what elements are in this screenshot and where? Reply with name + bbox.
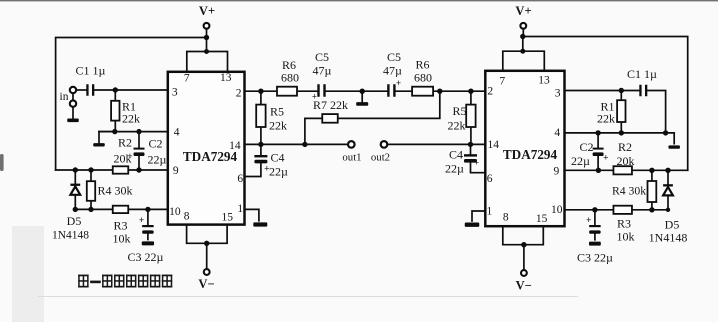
svg-text:4: 4 xyxy=(554,127,560,139)
svg-text:14: 14 xyxy=(229,140,241,152)
svg-text:D5: D5 xyxy=(67,214,82,228)
svg-text:1: 1 xyxy=(237,203,243,215)
power terminal V- (left) xyxy=(198,269,214,291)
wire: pin 7 / pin 13 supply bracket (right) xyxy=(503,51,545,71)
wire: pin 10 net (right) xyxy=(565,209,669,211)
capacitor C1 (left) 1uF xyxy=(76,64,106,96)
junction dot (C4/R5 node, right) xyxy=(468,142,473,147)
ground (R1/R2 node) xyxy=(93,132,115,147)
svg-text:out1: out1 xyxy=(342,152,361,164)
svg-text:1N4148: 1N4148 xyxy=(52,230,89,242)
wire: pin 4 net (left) xyxy=(99,131,168,133)
resistor R3 (left) 10k xyxy=(113,206,131,246)
svg-text:C4: C4 xyxy=(270,151,284,165)
resistor R3 (right) 10k xyxy=(613,206,634,244)
svg-text:22µ: 22µ xyxy=(445,162,464,176)
svg-text:6: 6 xyxy=(487,173,493,185)
resistor R4 (left) 30k xyxy=(87,170,133,209)
svg-text:R5: R5 xyxy=(452,104,466,118)
wire: pin 7 / pin 13 supply bracket (left) xyxy=(187,52,228,72)
ground (pin 1, left) xyxy=(253,222,267,226)
svg-text:13: 13 xyxy=(538,75,550,87)
svg-text:+: + xyxy=(586,216,591,226)
capacitor C1 (right) 1uF xyxy=(627,67,657,96)
wire: pin 9 net (left) xyxy=(56,169,168,171)
svg-text:22k: 22k xyxy=(269,119,287,133)
svg-text:4: 4 xyxy=(174,126,180,138)
junction dot (V- node right) xyxy=(521,242,526,247)
svg-text:V−: V− xyxy=(516,279,532,293)
junction dot (C2 top, right) xyxy=(595,130,600,135)
capacitor C4 (left) 22uF xyxy=(245,144,289,178)
output terminal out2 xyxy=(371,141,390,163)
junction dot (C1/ground corner, right) xyxy=(663,130,668,135)
svg-text:8: 8 xyxy=(184,211,190,223)
op-amp IC U1 TDA7294 (left) with pin numbers xyxy=(168,72,245,225)
wire: V+ node to pin7/13 bracket (right) xyxy=(522,37,524,52)
junction dot (R7 node right) xyxy=(437,89,442,94)
svg-text:R2: R2 xyxy=(118,136,132,150)
svg-text:R3: R3 xyxy=(617,217,631,231)
power terminal V- (right) xyxy=(516,270,532,292)
resistor R2 (right) 20k xyxy=(613,140,634,174)
svg-text:10: 10 xyxy=(169,206,181,218)
junction dot (V- node left) xyxy=(204,241,209,246)
capacitor C3 (left) 22uF xyxy=(127,209,163,264)
junction dot (D5 anode, right) xyxy=(666,208,670,212)
junction dot (R7 corner at pin14 net) xyxy=(302,142,307,147)
svg-text:680: 680 xyxy=(281,71,299,85)
capacitor C2 (right) 22uF xyxy=(571,133,608,170)
svg-text:R7 22k: R7 22k xyxy=(313,98,348,112)
junction dot (D5 cathode node, left) xyxy=(73,167,78,172)
wire: out2 to pin 14 net (right) xyxy=(388,143,486,145)
svg-text:7: 7 xyxy=(499,76,505,88)
svg-text:C1 1µ: C1 1µ xyxy=(76,64,106,78)
ground (mid, between C5s) xyxy=(356,91,368,106)
capacitor C4 (right) 22uF xyxy=(445,144,485,175)
svg-text:R4 30k: R4 30k xyxy=(98,184,133,198)
wire: V- lead (left) xyxy=(206,243,208,268)
wire: C5 to C5 mid link xyxy=(326,90,388,92)
junction dot (C3 top, left) xyxy=(145,207,150,212)
wire: pin 14 net to out1 (left) xyxy=(245,143,348,145)
junction dot (C2 bottom, left) xyxy=(136,167,141,172)
ground (pin 1, right) xyxy=(465,223,480,227)
svg-text:+: + xyxy=(603,154,608,164)
junction dot (R5 top, left) xyxy=(258,89,263,94)
svg-text:R5: R5 xyxy=(270,105,284,119)
svg-text:V+: V+ xyxy=(515,4,531,18)
junction dot (R4 bottom, right) xyxy=(649,207,654,212)
wire: pin 10 net (left) xyxy=(75,208,168,210)
svg-text:22µ: 22µ xyxy=(148,153,167,167)
junction dot (C2 bottom, right) xyxy=(596,168,601,173)
svg-text:R3: R3 xyxy=(113,219,127,233)
svg-text:13: 13 xyxy=(220,72,232,84)
junction dot (D5 cathode node, right) xyxy=(665,168,670,173)
ground (pin 4 node, right) xyxy=(666,133,680,149)
junction dot (R4 top, right) xyxy=(649,168,654,173)
power terminal V+ (left) xyxy=(199,4,215,38)
wire: pin 1 to ground (right) xyxy=(472,211,485,221)
svg-text:22k: 22k xyxy=(448,119,466,133)
svg-text:R2: R2 xyxy=(618,140,632,154)
svg-text:10k: 10k xyxy=(113,232,131,246)
wire: pin 2 net (left IC to C5) xyxy=(245,90,318,92)
svg-text:20k: 20k xyxy=(617,154,635,168)
svg-text:C3 22µ: C3 22µ xyxy=(577,251,613,265)
svg-text:V+: V+ xyxy=(199,4,215,18)
resistor R1 (left) 22k xyxy=(111,90,140,132)
svg-text:C5: C5 xyxy=(315,50,329,64)
wire: C1 to pin 3 (left) xyxy=(94,89,168,91)
svg-text:in: in xyxy=(60,91,69,103)
svg-text:9: 9 xyxy=(173,165,179,177)
svg-text:22k: 22k xyxy=(597,112,615,126)
svg-text:15: 15 xyxy=(222,212,234,224)
svg-text:8: 8 xyxy=(503,211,509,223)
wire: C5 to pin 2 net (right) xyxy=(396,90,486,92)
junction dot (C4/R5 node, left) xyxy=(258,142,263,147)
diode D5 (left) 1N4148 xyxy=(52,170,89,242)
wire: C1 to grounded corner (right) xyxy=(647,91,665,133)
svg-text:680: 680 xyxy=(414,71,432,85)
output terminal out1 xyxy=(342,141,361,163)
svg-text:10k: 10k xyxy=(617,230,635,244)
svg-text:47µ: 47µ xyxy=(383,64,402,78)
capacitor C5 (right) 47uF xyxy=(383,50,402,97)
svg-text:TDA7294: TDA7294 xyxy=(503,147,558,162)
wire: pin 4 net (right) xyxy=(565,132,666,134)
resistor R1 (right) 22k xyxy=(597,91,626,133)
wire: pin 9 net (right) xyxy=(565,169,688,171)
wire: V- lead (right) xyxy=(523,245,525,269)
svg-text:+: + xyxy=(396,78,401,88)
junction dot (C2 top, left) xyxy=(136,129,141,134)
junction dot (D5 anode, left) xyxy=(73,207,78,212)
svg-text:+: + xyxy=(474,159,479,169)
svg-text:3: 3 xyxy=(555,87,561,99)
svg-text:R6: R6 xyxy=(415,58,429,72)
wire: input to C1 xyxy=(77,89,86,91)
power terminal V+ (right) xyxy=(515,4,531,37)
svg-text:22k: 22k xyxy=(122,112,140,126)
capacitor C5 (left) 47uF xyxy=(312,50,332,102)
svg-text:6: 6 xyxy=(237,173,243,185)
junction dot (C3 top, right) xyxy=(592,207,597,212)
svg-text:C5: C5 xyxy=(387,50,401,64)
input terminal "in" xyxy=(60,87,77,107)
svg-text:10: 10 xyxy=(551,204,563,216)
wire: V+ top rail to left-side rail xyxy=(56,38,207,170)
wire: pins 8/15 to V- bracket (left) xyxy=(187,225,228,244)
svg-text:14: 14 xyxy=(487,139,499,151)
wire: pin 1 to ground (left) xyxy=(245,209,259,220)
svg-text:C1 1µ: C1 1µ xyxy=(627,67,657,81)
svg-text:2: 2 xyxy=(487,86,493,98)
op-amp IC U2 TDA7294 (right) with pin numbers xyxy=(485,71,564,226)
svg-text:C4: C4 xyxy=(449,148,463,162)
svg-text:out2: out2 xyxy=(371,152,390,164)
junction dot (R1 bottom, right) xyxy=(619,130,624,135)
resistor R6 (right) 680 xyxy=(412,58,433,96)
svg-text:22µ: 22µ xyxy=(571,154,590,168)
resistor R7 22k feedback link xyxy=(305,91,440,144)
wire: pins 8/15 to V- bracket (right) xyxy=(503,226,544,245)
svg-text:1: 1 xyxy=(487,206,493,218)
resistor R6 (left) 680 xyxy=(277,58,299,96)
capacitor C3 (right) 22uF xyxy=(577,210,613,265)
diode D5 (right) 1N4148 xyxy=(649,170,688,244)
svg-text:C2: C2 xyxy=(579,140,593,154)
wire: V+ node to pin7/13 bracket xyxy=(206,38,208,52)
junction dot (R4 top, left) xyxy=(88,167,93,172)
junction dot (R1 top, left) xyxy=(113,87,118,92)
svg-text:20k: 20k xyxy=(114,152,132,166)
resistor R5 (right) 22k xyxy=(448,91,476,144)
resistor R2 (left) 20k xyxy=(113,136,132,174)
svg-text:+: + xyxy=(139,216,144,226)
wire: pin 3 net (right IC to C1) xyxy=(565,90,640,92)
junction dot (R4 bottom, left) xyxy=(88,207,93,212)
junction dot (V+ node right) xyxy=(520,34,525,39)
svg-text:C2: C2 xyxy=(148,137,162,151)
svg-text:9: 9 xyxy=(554,166,560,178)
junction dot (bracket node left) xyxy=(204,49,209,54)
svg-text:7: 7 xyxy=(184,73,190,85)
ground (input jack) xyxy=(67,108,79,123)
svg-text:22µ: 22µ xyxy=(269,165,288,179)
svg-text:1N4148: 1N4148 xyxy=(649,231,688,245)
svg-text:47µ: 47µ xyxy=(313,64,332,78)
svg-text:D5: D5 xyxy=(665,218,680,232)
junction dot (R5 top, right) xyxy=(468,89,473,94)
junction dot (bracket node right) xyxy=(520,49,525,54)
svg-text:15: 15 xyxy=(536,213,548,225)
svg-text:V−: V− xyxy=(198,277,214,291)
caption: other channel identical (Chinese) xyxy=(78,275,172,288)
junction dot (V+ node left) xyxy=(204,35,209,40)
junction dot (R1 bottom) xyxy=(112,129,117,134)
svg-text:R4 30k: R4 30k xyxy=(612,185,646,198)
junction dot (R1 top, right) xyxy=(619,88,624,93)
svg-text:C3 22µ: C3 22µ xyxy=(127,250,163,264)
resistor R5 (left) 22k xyxy=(256,91,287,144)
capacitor C2 (left) 22uF xyxy=(127,132,166,170)
svg-text:3: 3 xyxy=(172,87,178,99)
junction dot (mid ground node) xyxy=(360,89,365,94)
svg-text:2: 2 xyxy=(236,88,242,100)
resistor R4 (right) 30k xyxy=(612,170,656,210)
wire: V+ top rail to right-side rail xyxy=(523,37,688,171)
